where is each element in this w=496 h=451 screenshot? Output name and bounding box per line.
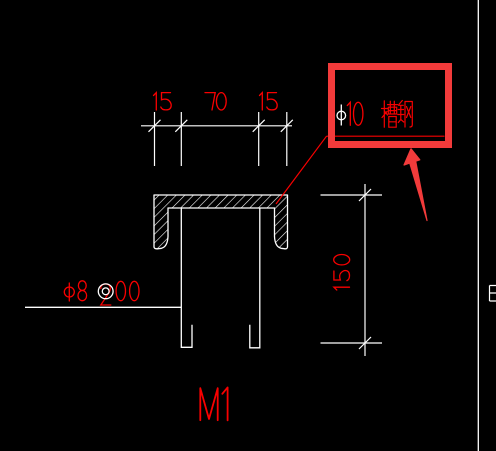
- label 槽 (drawn strokes): [382, 101, 398, 127]
- embedded plate right line: [250, 208, 260, 348]
- embedded plate left line: [181, 208, 192, 347]
- channel steel section (hatched): [154, 195, 288, 249]
- red leader diagonal to flange: [276, 136, 327, 204]
- red leader underline: [327, 135, 445, 137]
- extension line 3: [258, 112, 260, 166]
- top dimension line: [141, 125, 292, 127]
- dimension text 150 (rotated): [334, 255, 350, 291]
- tick 4: [281, 120, 293, 132]
- @ white: [98, 284, 113, 299]
- phi8 red: [64, 281, 86, 301]
- wire right border vertical line: [477, 0, 479, 451]
- tick 1: [149, 120, 161, 132]
- extension line 2: [180, 112, 182, 166]
- label M1: [200, 387, 227, 420]
- red arrow pointing to box: [404, 149, 427, 221]
- dimension text 15 (left): [154, 93, 172, 110]
- node E partial glyph at right edge: [490, 286, 496, 302]
- 2 red under @: [101, 284, 111, 305]
- dimension text 70: [205, 93, 226, 110]
- tick top: [359, 189, 371, 201]
- label 10 red: [347, 102, 363, 125]
- label 钢 (drawn strokes): [398, 101, 413, 128]
- extension line 4: [286, 112, 288, 166]
- 00 red: [116, 281, 139, 300]
- extension line 1: [154, 112, 156, 166]
- red highlight rectangle: [332, 67, 449, 145]
- tick 2: [175, 120, 187, 132]
- tick 3: [253, 120, 265, 132]
- tick bottom: [359, 337, 371, 349]
- right dimension line (150): [364, 184, 366, 356]
- extension line top: [321, 194, 383, 196]
- extension line bottom: [321, 342, 383, 344]
- dimension text 15 (right): [260, 93, 278, 110]
- label Phi10 (phi white): [337, 105, 346, 126]
- wire leader line for rebar note: [25, 306, 181, 308]
